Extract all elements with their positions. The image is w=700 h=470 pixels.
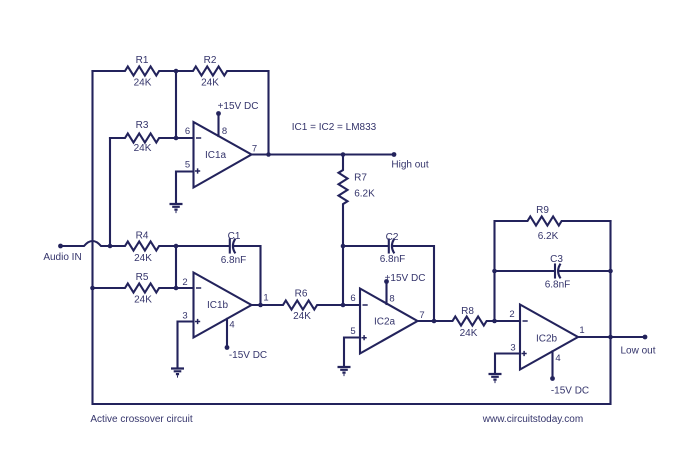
svg-text:www.circuitstoday.com: www.circuitstoday.com <box>482 414 583 425</box>
svg-text:4: 4 <box>555 353 560 364</box>
svg-text:6.2K: 6.2K <box>354 189 375 200</box>
svg-text:24K: 24K <box>134 78 152 89</box>
svg-text:C3: C3 <box>550 254 563 265</box>
svg-text:6.8nF: 6.8nF <box>221 255 247 266</box>
svg-text:R1: R1 <box>136 55 149 66</box>
svg-text:R3: R3 <box>136 120 149 131</box>
svg-text:R6: R6 <box>295 289 308 300</box>
svg-text:C2: C2 <box>386 232 399 243</box>
svg-text:5: 5 <box>350 326 355 337</box>
svg-text:IC1 = IC2 = LM833: IC1 = IC2 = LM833 <box>292 122 377 133</box>
svg-text:IC1a: IC1a <box>205 150 227 161</box>
svg-text:R4: R4 <box>136 231 149 242</box>
svg-text:8: 8 <box>222 126 227 137</box>
svg-text:24K: 24K <box>293 311 311 322</box>
svg-text:R7: R7 <box>354 173 367 184</box>
svg-text:7: 7 <box>419 310 424 321</box>
svg-text:6.8nF: 6.8nF <box>380 254 406 265</box>
svg-text:Audio IN: Audio IN <box>43 252 81 263</box>
svg-text:IC2b: IC2b <box>536 334 558 345</box>
svg-text:2: 2 <box>182 277 187 288</box>
svg-text:High out: High out <box>391 160 428 171</box>
svg-text:IC2a: IC2a <box>374 317 396 328</box>
svg-text:R9: R9 <box>536 205 549 216</box>
svg-text:C1: C1 <box>228 231 241 242</box>
svg-text:3: 3 <box>182 311 187 322</box>
svg-text:-15V DC: -15V DC <box>229 350 267 361</box>
svg-text:Active crossover circuit: Active crossover circuit <box>90 414 192 425</box>
svg-text:R8: R8 <box>461 306 474 317</box>
svg-text:-15V DC: -15V DC <box>551 386 589 397</box>
svg-text:24K: 24K <box>134 143 152 154</box>
svg-text:3: 3 <box>510 343 515 354</box>
svg-text:24K: 24K <box>134 295 152 306</box>
svg-text:2: 2 <box>509 309 514 320</box>
svg-text:24K: 24K <box>460 328 478 339</box>
svg-text:8: 8 <box>389 294 394 305</box>
svg-text:Low out: Low out <box>620 346 655 357</box>
svg-text:6.2K: 6.2K <box>538 231 559 242</box>
svg-text:5: 5 <box>185 160 190 171</box>
svg-text:+15V DC: +15V DC <box>218 101 259 112</box>
svg-text:4: 4 <box>229 320 234 331</box>
svg-text:7: 7 <box>252 144 257 155</box>
svg-text:1: 1 <box>263 293 268 304</box>
svg-text:R5: R5 <box>136 272 149 283</box>
svg-text:6: 6 <box>350 293 355 304</box>
svg-text:+15V DC: +15V DC <box>385 273 426 284</box>
svg-text:R2: R2 <box>204 55 217 66</box>
svg-text:1: 1 <box>579 325 584 336</box>
svg-text:6.8nF: 6.8nF <box>545 280 571 291</box>
svg-text:24K: 24K <box>201 78 219 89</box>
svg-text:IC1b: IC1b <box>207 300 229 311</box>
svg-text:24K: 24K <box>134 253 152 264</box>
svg-text:6: 6 <box>185 126 190 137</box>
